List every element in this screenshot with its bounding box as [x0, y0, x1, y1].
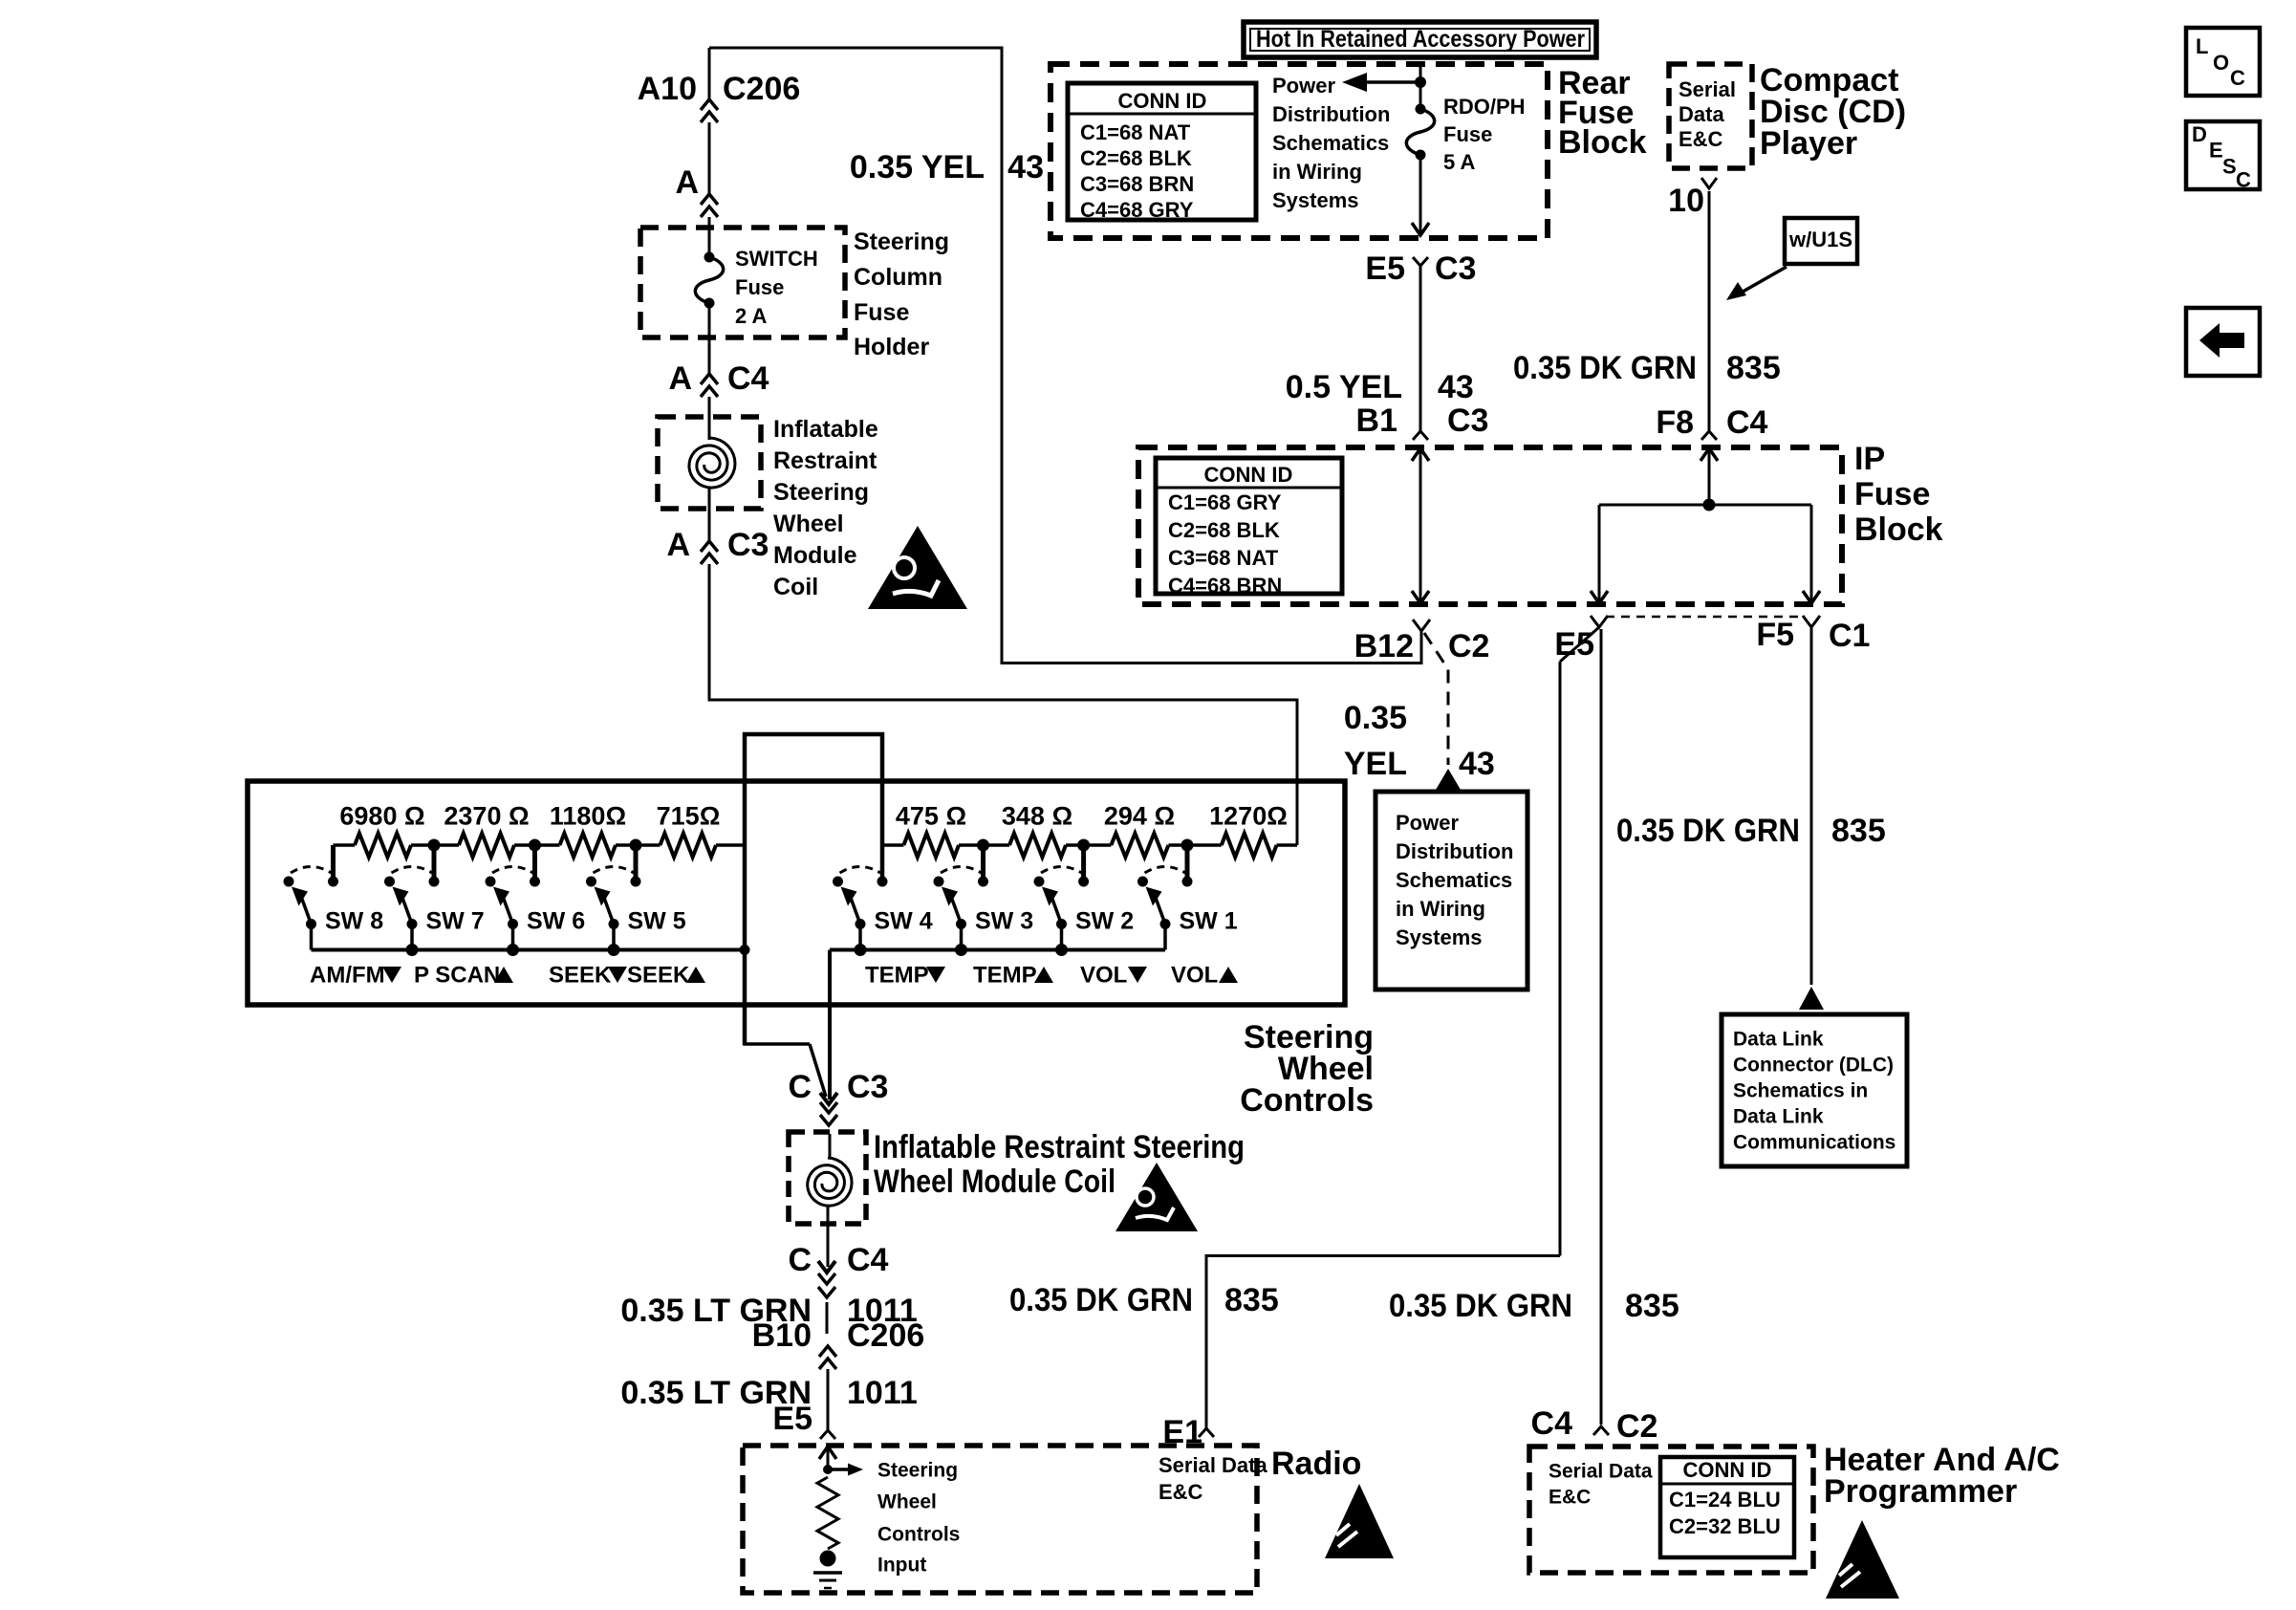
- svg-text:Fuse: Fuse: [1443, 122, 1492, 146]
- node junction 6980/2370: [428, 839, 441, 852]
- resistor 6980 ohm: [334, 843, 356, 847]
- svg-text:VOL: VOL: [1171, 963, 1218, 989]
- svg-text:835: 835: [1726, 350, 1781, 386]
- svg-text:SWITCH: SWITCH: [735, 247, 818, 271]
- svg-text:A: A: [666, 527, 690, 563]
- svg-text:Systems: Systems: [1272, 188, 1359, 212]
- svg-text:Coil: Coil: [773, 574, 818, 600]
- switch SW5: [631, 877, 641, 887]
- svg-text:C2: C2: [1616, 1408, 1657, 1445]
- switch SW3: [978, 877, 988, 887]
- svg-text:in Wiring: in Wiring: [1272, 160, 1362, 184]
- svg-text:294 Ω: 294 Ω: [1104, 802, 1175, 831]
- connector face dashed line E5-F5: [1606, 616, 1804, 619]
- svg-text:P SCAN: P SCAN: [414, 963, 500, 989]
- svg-text:835: 835: [1224, 1282, 1279, 1318]
- node junction 348/294: [1077, 839, 1090, 852]
- switch SW1: [1182, 877, 1193, 887]
- resistor 1180 ohm: [535, 843, 560, 847]
- svg-text:Module: Module: [773, 542, 857, 569]
- svg-text:Player: Player: [1760, 125, 1857, 162]
- svg-text:Serial Data: Serial Data: [1159, 1453, 1267, 1477]
- svg-text:Data: Data: [1679, 102, 1724, 126]
- svg-text:C: C: [2236, 167, 2251, 191]
- svg-text:C3: C3: [1435, 250, 1476, 287]
- steering wheel controls box: [248, 781, 1345, 1005]
- svg-text:AM/FM: AM/FM: [310, 963, 385, 989]
- svg-text:715Ω: 715Ω: [657, 802, 721, 831]
- svg-text:Fuse: Fuse: [854, 299, 909, 326]
- wire junction right branch to F5: [1810, 505, 1813, 604]
- svg-text:Connector (DLC): Connector (DLC): [1733, 1054, 1894, 1076]
- wire center loop (bus to SW4 contact): [745, 734, 882, 1045]
- svg-text:RDO/PH: RDO/PH: [1443, 95, 1526, 119]
- svg-text:Communications: Communications: [1733, 1131, 1895, 1153]
- svg-text:C4: C4: [1726, 404, 1768, 441]
- wire left bus: [312, 948, 746, 952]
- resistor 294 ohm: [1084, 843, 1112, 847]
- switch SW8: [328, 877, 338, 887]
- fuse SWITCH 2A symbol: [704, 252, 715, 263]
- switch SW6: [530, 877, 540, 887]
- svg-text:Holder: Holder: [854, 334, 929, 360]
- svg-text:C1=24 BLU: C1=24 BLU: [1669, 1488, 1781, 1512]
- wire below fuse holder: [708, 303, 711, 374]
- wire W2 down to 1270 ohm resistor: [1296, 699, 1299, 846]
- wire left chain start to SW8 contact: [331, 845, 336, 881]
- heater dashed box: [1529, 1447, 1813, 1573]
- wire down to E1: [1205, 1254, 1208, 1428]
- conn id table (IP fuse block): [1156, 458, 1342, 594]
- svg-text:E5: E5: [1365, 250, 1405, 287]
- svg-text:C2: C2: [1448, 628, 1489, 664]
- svg-text:Schematics in: Schematics in: [1733, 1079, 1868, 1101]
- svg-text:B12: B12: [1354, 628, 1414, 664]
- node F8 C4 connector (IP fuse block): [1701, 431, 1717, 440]
- svg-text:43: 43: [1438, 369, 1474, 405]
- svg-text:SEEK: SEEK: [627, 963, 690, 989]
- svg-text:0.35 YEL: 0.35 YEL: [850, 149, 985, 185]
- svg-text:835: 835: [1625, 1288, 1679, 1324]
- wire junction left branch to E5: [1598, 505, 1601, 604]
- svg-text:475 Ω: 475 Ω: [896, 802, 966, 831]
- svg-text:Inflatable Restraint Steering: Inflatable Restraint Steering: [874, 1129, 1245, 1165]
- svg-text:E5: E5: [772, 1401, 812, 1437]
- node B12 C2 connector: [1413, 620, 1430, 631]
- svg-text:L: L: [2196, 34, 2208, 58]
- svg-text:C3: C3: [727, 527, 769, 563]
- node C4 C2 connector (heater): [1593, 1426, 1609, 1435]
- svg-text:Controls: Controls: [877, 1523, 960, 1545]
- node A connector pin A of C4: [701, 194, 718, 205]
- svg-text:E&C: E&C: [1549, 1486, 1591, 1508]
- svg-text:C3=68 NAT: C3=68 NAT: [1168, 546, 1279, 570]
- node C C4 connector: [818, 1261, 835, 1273]
- svg-text:SW 3: SW 3: [975, 908, 1033, 935]
- svg-text:Restraint: Restraint: [773, 447, 877, 474]
- node junction 1180/715: [630, 839, 642, 852]
- svg-text:C3: C3: [847, 1069, 888, 1105]
- svg-text:Distribution: Distribution: [1396, 839, 1513, 863]
- svg-text:Schematics: Schematics: [1396, 868, 1512, 892]
- node E5 connector (radio): [820, 1430, 835, 1439]
- svg-text:Hot In Retained Accessory Powe: Hot In Retained Accessory Power: [1256, 26, 1585, 53]
- svg-text:O: O: [2213, 51, 2229, 75]
- node B1 C3 connector (IP fuse block): [1413, 431, 1428, 440]
- svg-text:Systems: Systems: [1396, 925, 1483, 949]
- svg-text:C: C: [2230, 66, 2245, 90]
- svg-text:C2=32 BLU: C2=32 BLU: [1669, 1514, 1781, 1538]
- svg-text:C4: C4: [1531, 1405, 1573, 1442]
- svg-text:YEL: YEL: [1344, 746, 1407, 782]
- svg-text:C206: C206: [847, 1317, 924, 1354]
- svg-text:5 A: 5 A: [1443, 150, 1476, 174]
- svg-text:C206: C206: [723, 71, 800, 107]
- node F5 C1 connector: [1803, 616, 1820, 627]
- wire left bus leg below box: [745, 950, 810, 1045]
- wire W1 horizontal into B12 connector: [1002, 662, 1421, 664]
- svg-text:A: A: [668, 360, 692, 397]
- resistor 348 ohm: [984, 843, 1010, 847]
- airbag warning triangle (lower): [1116, 1163, 1198, 1231]
- svg-text:6980 Ω: 6980 Ω: [339, 802, 424, 831]
- svg-text:0.35 DK GRN: 0.35 DK GRN: [1389, 1288, 1572, 1324]
- wire W1 stub up to B12 fork: [1420, 631, 1423, 664]
- svg-text:1180Ω: 1180Ω: [550, 802, 626, 831]
- back arrow button: [2186, 308, 2260, 376]
- DESC button: [2186, 121, 2260, 189]
- svg-text:SW 6: SW 6: [527, 908, 585, 935]
- svg-text:C: C: [788, 1242, 812, 1278]
- svg-text:0.35 DK GRN: 0.35 DK GRN: [1009, 1282, 1193, 1318]
- node junction 294/1270: [1181, 839, 1194, 852]
- arrow steering wheel controls input: [828, 1468, 849, 1471]
- node B10 C206 connector: [819, 1346, 836, 1357]
- svg-text:2 A: 2 A: [735, 304, 768, 328]
- svg-text:0.35 DK GRN: 0.35 DK GRN: [1616, 813, 1800, 849]
- node A C3 in-line connector: [701, 541, 718, 552]
- node junction in IP block: [1703, 499, 1716, 511]
- svg-text:C3=68 BRN: C3=68 BRN: [1080, 172, 1194, 196]
- reference triangle (DLC): [1799, 987, 1824, 1010]
- svg-text:Block: Block: [1558, 124, 1647, 161]
- svg-text:E&C: E&C: [1679, 127, 1723, 151]
- svg-text:SW 7: SW 7: [426, 908, 485, 935]
- data link connector schematics box (reference): [1722, 1014, 1907, 1166]
- svg-text:10: 10: [1668, 183, 1704, 219]
- wire E5 to radio E1 (horizontal): [1206, 1254, 1560, 1257]
- coil spiral symbol (upper): [708, 432, 711, 440]
- power distribution schematics box (reference): [1375, 792, 1527, 990]
- svg-text:TEMP: TEMP: [973, 963, 1037, 989]
- svg-text:Input: Input: [877, 1554, 926, 1576]
- inflatable restraint coil box (upper): [658, 417, 761, 509]
- wire fuse to rear block bottom edge with arrow: [1419, 155, 1422, 235]
- resistor 475 ohm: [882, 843, 903, 847]
- svg-text:Block: Block: [1854, 511, 1943, 548]
- svg-text:1011: 1011: [847, 1375, 918, 1411]
- svg-text:Steering: Steering: [877, 1459, 958, 1481]
- svg-text:0.35: 0.35: [1344, 700, 1407, 736]
- svg-text:C4=68 GRY: C4=68 GRY: [1080, 198, 1194, 222]
- wire W1 right vertical down to B12 row: [1001, 47, 1004, 665]
- node 10 connector (cd player): [1701, 178, 1717, 188]
- IP fuse block dashed box: [1138, 447, 1842, 604]
- svg-text:SW 2: SW 2: [1075, 908, 1134, 935]
- esd triangle (radio): [1325, 1484, 1394, 1558]
- svg-text:in Wiring: in Wiring: [1396, 897, 1485, 921]
- inflatable restraint coil box (lower): [789, 1132, 866, 1224]
- w/U1S arrow: [1738, 267, 1787, 294]
- svg-text:Wheel Module Coil: Wheel Module Coil: [874, 1164, 1116, 1200]
- svg-text:Data Link: Data Link: [1733, 1028, 1824, 1050]
- svg-text:C4: C4: [847, 1242, 889, 1278]
- svg-text:A: A: [675, 164, 699, 201]
- node E5 connector (IP block): [1591, 616, 1608, 627]
- switch SW2: [1078, 877, 1089, 887]
- wire into radio with arrow and junction: [827, 1446, 830, 1469]
- wire B1 to B12 through IP block: [1419, 447, 1422, 604]
- switch SW7: [429, 877, 440, 887]
- svg-text:348 Ω: 348 Ω: [1002, 802, 1072, 831]
- svg-text:Wheel: Wheel: [877, 1490, 937, 1512]
- svg-text:C2=68 BLK: C2=68 BLK: [1168, 518, 1280, 542]
- svg-text:w/U1S: w/U1S: [1788, 228, 1852, 251]
- svg-text:A10: A10: [638, 71, 697, 107]
- svg-text:Radio: Radio: [1271, 1446, 1361, 1482]
- svg-text:B1: B1: [1356, 402, 1397, 439]
- svg-text:SW 1: SW 1: [1180, 908, 1238, 935]
- svg-text:C: C: [788, 1069, 812, 1105]
- wire F8 into IP block to junction: [1708, 447, 1711, 505]
- svg-text:Serial: Serial: [1679, 77, 1736, 101]
- hot in retained accessory power box: [1244, 22, 1596, 57]
- coil spiral symbol (lower): [829, 1134, 832, 1159]
- svg-text:43: 43: [1007, 149, 1044, 185]
- fuse RDO/PH 5A symbol: [1416, 104, 1426, 115]
- svg-text:Schematics: Schematics: [1272, 131, 1389, 155]
- svg-text:Programmer: Programmer: [1824, 1473, 2017, 1510]
- svg-text:Controls: Controls: [1240, 1082, 1374, 1119]
- svg-text:CONN ID: CONN ID: [1118, 89, 1207, 113]
- wire dashed B12 to power distribution reference: [1424, 633, 1448, 765]
- wire W1 top horizontal from A10 column to B12 loop: [709, 47, 1002, 50]
- wire E5 to radio E1 (vertical): [1559, 662, 1562, 1256]
- node A10 C206 in-line connector: [708, 48, 711, 99]
- svg-text:E: E: [2209, 139, 2223, 163]
- svg-text:VOL: VOL: [1080, 963, 1127, 989]
- arrow to power distribution reference: [1350, 80, 1420, 84]
- steering column fuse holder box: [640, 228, 845, 337]
- svg-text:F8: F8: [1656, 404, 1694, 441]
- svg-text:C1=68 NAT: C1=68 NAT: [1080, 120, 1191, 144]
- svg-text:1270Ω: 1270Ω: [1209, 802, 1288, 831]
- svg-text:Power: Power: [1272, 74, 1335, 98]
- svg-text:0.35 DK GRN: 0.35 DK GRN: [1513, 350, 1697, 386]
- svg-text:C3: C3: [1447, 402, 1488, 439]
- svg-text:SW 5: SW 5: [628, 908, 686, 935]
- svg-text:Power: Power: [1396, 811, 1459, 835]
- svg-text:2370 Ω: 2370 Ω: [444, 802, 529, 831]
- wire right bus: [830, 948, 1165, 952]
- svg-text:E&C: E&C: [1159, 1480, 1203, 1504]
- svg-text:TEMP: TEMP: [865, 963, 929, 989]
- airbag warning triangle (upper): [868, 526, 967, 609]
- node C C3 connector: [820, 1093, 837, 1104]
- wire F8 junction to heater C4: [1600, 629, 1603, 1425]
- svg-text:43: 43: [1459, 746, 1495, 782]
- svg-text:S: S: [2222, 154, 2237, 178]
- wire W2 horizontal across to steering wheel controls: [709, 699, 1297, 702]
- conn id table (heater): [1660, 1457, 1794, 1557]
- svg-text:B10: B10: [752, 1317, 812, 1354]
- esd triangle (heater): [1826, 1520, 1899, 1599]
- node junction 475/348: [977, 839, 989, 852]
- resistor 2370 ohm: [434, 843, 459, 847]
- svg-text:835: 835: [1831, 813, 1886, 849]
- wire from top edge to RDO fuse: [1419, 61, 1422, 109]
- wire junction horizontal: [1599, 504, 1811, 507]
- switch SW4: [877, 877, 888, 887]
- svg-text:0.5 YEL: 0.5 YEL: [1286, 369, 1402, 405]
- svg-text:Steering: Steering: [854, 228, 949, 255]
- svg-text:Data Link: Data Link: [1733, 1105, 1824, 1127]
- radio dashed box: [743, 1446, 1257, 1593]
- svg-text:Column: Column: [854, 264, 942, 291]
- svg-text:C4: C4: [727, 360, 769, 397]
- resistor steering wheel controls input: [817, 1477, 838, 1549]
- svg-text:Fuse: Fuse: [1854, 476, 1930, 512]
- reference triangle (power distribution): [1436, 769, 1461, 790]
- svg-text:SW 8: SW 8: [325, 908, 383, 935]
- ground symbol (radio): [820, 1551, 836, 1567]
- node E5 C3 connector (rear fuse block): [1413, 257, 1428, 266]
- resistor 715 ohm: [636, 843, 661, 847]
- svg-text:SEEK: SEEK: [549, 963, 612, 989]
- svg-text:C4=68 BRN: C4=68 BRN: [1168, 574, 1282, 598]
- svg-text:Fuse: Fuse: [735, 275, 784, 299]
- wire cd player to F8: [1708, 191, 1711, 431]
- svg-text:C1: C1: [1829, 618, 1870, 654]
- svg-text:IP: IP: [1854, 441, 1885, 477]
- svg-text:Wheel: Wheel: [773, 511, 844, 537]
- svg-text:E5: E5: [1554, 626, 1594, 663]
- svg-text:Inflatable: Inflatable: [773, 416, 878, 443]
- compact disc player dashed box: [1669, 64, 1752, 168]
- svg-text:C2=68 BLK: C2=68 BLK: [1080, 146, 1192, 170]
- svg-text:Steering: Steering: [773, 479, 869, 506]
- LOC button: [2186, 28, 2260, 96]
- svg-text:F5: F5: [1756, 617, 1794, 653]
- wire right bus drop to C connector: [828, 950, 832, 1100]
- svg-text:CONN ID: CONN ID: [1683, 1458, 1772, 1482]
- node A C4 in-line connector: [701, 374, 718, 384]
- conn id table (rear fuse block): [1068, 83, 1256, 220]
- svg-text:Serial Data: Serial Data: [1549, 1460, 1653, 1482]
- svg-text:Distribution: Distribution: [1272, 102, 1390, 126]
- svg-text:SW 4: SW 4: [875, 908, 933, 935]
- node junction 2370/1180: [529, 839, 541, 852]
- rear fuse block dashed box: [1051, 64, 1548, 238]
- svg-text:D: D: [2192, 122, 2207, 146]
- svg-text:C1=68 GRY: C1=68 GRY: [1168, 490, 1282, 514]
- w/U1S callout box: [1785, 218, 1857, 264]
- resistor 1270 ohm: [1187, 843, 1222, 847]
- node E1 connector (radio): [1199, 1428, 1214, 1437]
- svg-text:CONN ID: CONN ID: [1204, 463, 1293, 487]
